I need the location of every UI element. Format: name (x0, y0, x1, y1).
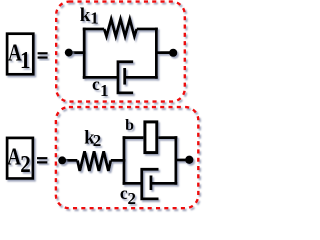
wire: top branch right lead (137, 28, 158, 31)
equals sign 1 (38, 52, 48, 59)
dashed boundary box 2 (bottom model) (56, 107, 198, 208)
wire: left vertical junction bar (83, 28, 86, 79)
block A1 (7, 34, 33, 75)
wire: friction block b to right vertical (158, 136, 177, 139)
svg-text:1: 1 (20, 47, 31, 74)
label k2 (84, 128, 101, 150)
wire: left terminal to left junction (69, 51, 86, 54)
dashed boundary box 1 (top model) (56, 2, 185, 102)
svg-text:c: c (92, 74, 100, 94)
label k1 (80, 5, 99, 28)
label A2 (7, 142, 30, 177)
wire: top branch left lead (83, 28, 104, 31)
damper c2 piston plate (150, 176, 153, 191)
node: left terminal dot (bottom model) (58, 156, 66, 164)
label b (125, 117, 134, 134)
damper c2 cylinder (142, 169, 159, 199)
svg-text:k: k (80, 5, 91, 26)
wire: bottom branch lead into damper c2 (123, 182, 142, 185)
svg-text:2: 2 (128, 189, 137, 208)
wire: top branch lead into friction block b (123, 136, 144, 139)
spring k1 (104, 19, 137, 36)
damper c2 piston rod (151, 182, 177, 185)
damper c1 piston plate (123, 68, 126, 85)
label c1 (92, 74, 109, 100)
spring k2 (77, 151, 110, 171)
svg-text:1: 1 (90, 9, 99, 28)
wire: right vertical to right terminal (176, 159, 189, 162)
wire: bottom branch lead into damper (83, 76, 118, 79)
wire: right vertical junction bar (174, 136, 177, 185)
node: left terminal dot (top model) (65, 49, 73, 57)
svg-text:b: b (125, 117, 134, 134)
label c2 (120, 183, 136, 208)
wire: spring k2 to left junction (111, 159, 126, 162)
wire: right vertical junction bar (155, 28, 158, 79)
wire: left terminal to spring k2 (62, 159, 77, 162)
equals sign 2 (37, 157, 47, 163)
damper c1 piston rod (125, 76, 158, 79)
damper c1 cylinder (118, 62, 133, 93)
wire: right vertical to right terminal (156, 51, 173, 54)
label A1 (8, 38, 31, 73)
friction block b (145, 122, 157, 153)
wire: left vertical junction bar (123, 136, 126, 185)
svg-text:2: 2 (20, 151, 31, 178)
node: right terminal dot (top model) (169, 49, 177, 57)
svg-text:2: 2 (93, 131, 102, 150)
node: right terminal dot (bottom model) (185, 156, 193, 164)
svg-text:1: 1 (100, 81, 109, 100)
svg-text:A: A (7, 142, 21, 170)
block A2 (7, 138, 33, 179)
